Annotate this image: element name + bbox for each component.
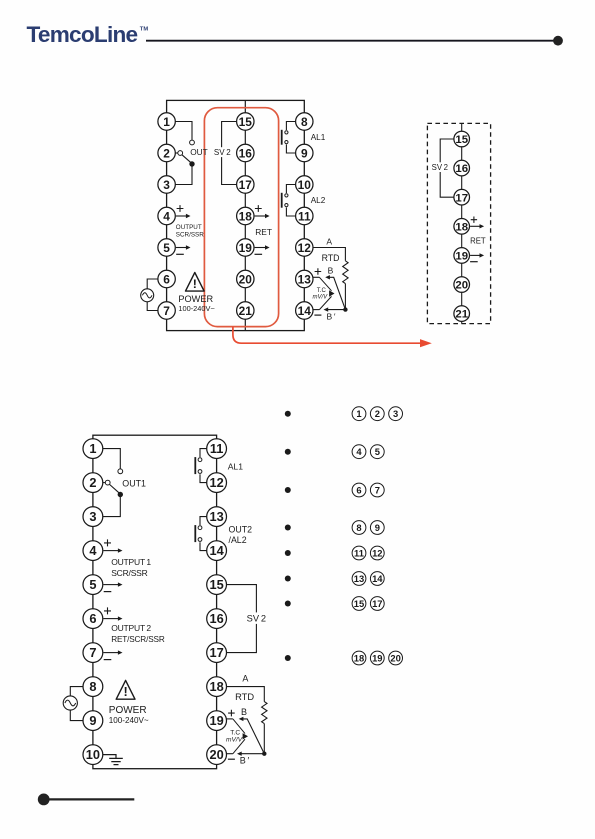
svg-text:18: 18	[455, 221, 468, 233]
SV2 (top middle) label	[214, 148, 231, 157]
bottom sensor input label B	[241, 707, 247, 717]
svg-text:3: 3	[393, 408, 398, 419]
terminal 16	[454, 160, 470, 176]
list terminal badge 12	[370, 546, 384, 560]
svg-text:10: 10	[86, 747, 100, 762]
svg-text:OUT2: OUT2	[229, 524, 253, 534]
top diagram middle column wire	[244, 100, 246, 330]
RET arrow (dashed 19)	[470, 253, 484, 257]
list bullet at terminals 11-12 row	[285, 550, 291, 556]
relay contact OUT1 open contact	[118, 469, 123, 474]
svg-text:17: 17	[372, 598, 382, 609]
svg-text:8: 8	[356, 522, 361, 533]
terminal 1	[158, 113, 175, 130]
svg-text:5: 5	[89, 577, 96, 592]
list terminal badge 13	[352, 572, 366, 586]
RET minus sign (terminal 19)	[255, 253, 263, 255]
svg-text:11: 11	[210, 441, 224, 456]
svg-text:3: 3	[89, 509, 96, 524]
RET arrow (terminal 18)	[255, 214, 270, 218]
terminal 5	[83, 575, 103, 595]
RET arrow (dashed 18)	[470, 224, 484, 228]
terminal 17	[454, 189, 470, 205]
list terminal badge 3	[389, 407, 403, 421]
svg-text:21: 21	[239, 304, 253, 318]
bottom sensor input plus sign	[228, 710, 235, 717]
terminal 18	[454, 219, 470, 235]
svg-text:6: 6	[163, 272, 170, 286]
svg-text:POWER: POWER	[178, 294, 213, 304]
terminal 20	[207, 745, 227, 765]
top sensor input node junction	[343, 307, 347, 311]
svg-text:8: 8	[301, 115, 308, 129]
SV2 (top middle) label backing	[214, 147, 231, 157]
svg-text:16: 16	[239, 146, 253, 160]
svg-text:1: 1	[163, 115, 170, 129]
terminal 17	[237, 176, 254, 193]
svg-text:POWER: POWER	[109, 705, 147, 716]
top sensor input wire B-prime with arrow	[324, 307, 346, 311]
svg-text:14: 14	[209, 543, 224, 558]
bottom sensor input node junction	[262, 752, 266, 756]
relay contact AL1 (bottom) contact bar	[194, 457, 196, 474]
output1 plus sign (terminal 4)	[104, 539, 111, 546]
bottom sensor input wire B with arrow	[239, 717, 265, 754]
label AL1 (bottom)	[228, 462, 244, 472]
svg-text:12: 12	[372, 547, 382, 558]
output1 arrow (terminal 5)	[103, 582, 122, 586]
svg-text:11: 11	[354, 547, 364, 558]
list bullet at terminals 8-9 row	[285, 525, 291, 531]
list terminal badge 18	[352, 651, 366, 665]
svg-text:2: 2	[163, 146, 170, 160]
svg-text:OUTPUT 1: OUTPUT 1	[111, 557, 151, 567]
bottom sensor input label A	[242, 674, 248, 684]
svg-text:100-240V~: 100-240V~	[109, 716, 149, 725]
AC source (top diagram)	[141, 289, 154, 302]
top sensor input wire A to RTD resistor	[313, 248, 345, 261]
header rule	[146, 40, 558, 42]
label POWER (bottom)	[109, 705, 147, 716]
terminal 9	[83, 711, 103, 731]
svg-text:7: 7	[375, 484, 380, 495]
output arrow (terminal 5)	[176, 245, 191, 249]
relay contact OUT2/AL2 contact points	[198, 526, 202, 542]
svg-text:RTD: RTD	[322, 253, 340, 263]
label OUT1	[122, 478, 146, 488]
svg-text:15: 15	[209, 577, 223, 592]
svg-text:18: 18	[209, 679, 223, 694]
terminal 20	[454, 277, 470, 293]
bottom sensor input label B-prime	[240, 755, 250, 765]
footer bullet dot	[38, 794, 50, 806]
svg-text:5: 5	[375, 446, 380, 457]
terminal 7	[158, 302, 175, 319]
header bullet dot	[553, 36, 563, 46]
bottom sensor input wire from - terminal	[227, 753, 233, 755]
svg-text:18: 18	[239, 209, 253, 223]
relay contact AL1 (bottom) wiring	[200, 449, 207, 483]
svg-text:A: A	[242, 674, 248, 684]
svg-text:12: 12	[209, 475, 223, 490]
SV2 (top middle) bracket wire	[222, 122, 237, 185]
output2 arrow (terminal 7)	[103, 650, 122, 654]
svg-text:19: 19	[209, 713, 223, 728]
top sensor input label B-prime	[327, 311, 336, 321]
svg-text:RTD: RTD	[235, 692, 254, 702]
svg-text:4: 4	[356, 446, 362, 457]
output minus sign (terminal 5)	[176, 253, 184, 255]
svg-text:9: 9	[301, 146, 308, 160]
terminal 15	[207, 575, 227, 595]
label POWER (top)	[178, 294, 213, 304]
relay contact AL2 (top) contact points	[285, 194, 288, 207]
top sensor input thermocouple lines	[319, 277, 334, 309]
svg-text:OUTPUT 2: OUTPUT 2	[111, 623, 151, 633]
terminal 19	[207, 711, 227, 731]
output arrow (terminal 4)	[176, 214, 191, 218]
relay contact OUT closed contact dot	[189, 161, 194, 166]
SV2 (dashed box) label backing	[431, 162, 448, 172]
wire AC source to terminal 7	[147, 302, 158, 311]
SV2 (dashed box) label	[432, 163, 448, 172]
svg-text:6: 6	[356, 484, 361, 495]
svg-text:TM: TM	[140, 26, 149, 32]
bottom sensor input minus sign	[228, 758, 235, 760]
svg-text:mV/V: mV/V	[226, 737, 243, 744]
warning triangle (bottom diagram)	[116, 680, 135, 699]
terminal 12	[207, 473, 227, 493]
terminal 19	[237, 239, 254, 256]
terminal 18	[207, 677, 227, 697]
svg-text:8: 8	[89, 679, 96, 694]
svg-text:4: 4	[163, 209, 170, 223]
SV2 (dashed box) bracket wire	[440, 139, 454, 197]
svg-text:1: 1	[356, 408, 361, 419]
top sensor input RTD resistor	[343, 261, 348, 284]
svg-text:OUTPUT: OUTPUT	[176, 224, 202, 231]
list terminal badge 4	[352, 445, 366, 459]
list terminal badge 11	[352, 546, 366, 560]
relay contact AL1 (bottom) contact points	[198, 458, 202, 474]
top sensor input minus sign	[314, 314, 321, 316]
SV2 (bottom) label	[247, 614, 266, 624]
svg-text:mV/V: mV/V	[313, 295, 329, 301]
relay contact OUT2/AL2 wiring	[200, 517, 207, 551]
bottom sensor input wire resistor to junction	[263, 724, 265, 754]
terminal 9	[296, 144, 313, 161]
svg-text:RET/SCR/SSR: RET/SCR/SSR	[111, 635, 165, 644]
svg-text:20: 20	[209, 747, 223, 762]
relay contact OUT1 closed contact dot	[118, 492, 123, 497]
svg-text:SCR/SSR: SCR/SSR	[111, 568, 147, 578]
svg-text:14: 14	[298, 304, 312, 318]
relay contact OUT wire from upper terminal	[175, 122, 192, 140]
terminal 19	[454, 248, 470, 264]
svg-text:10: 10	[298, 178, 312, 192]
terminal 16	[207, 609, 227, 629]
svg-text:B: B	[328, 265, 334, 275]
bottom sensor input wire A to RTD resistor	[227, 687, 265, 702]
svg-text:15: 15	[354, 598, 364, 609]
terminal 21	[237, 302, 254, 319]
terminal 21	[454, 306, 470, 322]
relay contact OUT1 switch arm	[110, 484, 120, 493]
terminal 10	[83, 745, 103, 765]
bottom sensor input label mV/V	[226, 737, 243, 744]
red callout arrowhead	[420, 339, 432, 347]
list terminal badge 1	[352, 407, 366, 421]
svg-text:9: 9	[89, 713, 96, 728]
svg-text:7: 7	[89, 645, 96, 660]
RET plus sign (terminal 18)	[255, 205, 262, 212]
svg-text:19: 19	[372, 652, 382, 663]
svg-text:20: 20	[455, 280, 468, 292]
terminal 17	[207, 643, 227, 663]
svg-text:21: 21	[455, 309, 468, 321]
bottom sensor input wire from + terminal	[227, 718, 233, 720]
svg-text:1: 1	[89, 441, 96, 456]
terminal 10	[296, 176, 313, 193]
svg-text:A: A	[326, 237, 332, 247]
svg-text:14: 14	[372, 573, 383, 584]
label OUT	[190, 147, 208, 157]
terminal 4	[158, 207, 175, 224]
top sensor input label mV/V	[313, 295, 329, 301]
terminal 14	[296, 302, 313, 319]
list terminal badge 6	[352, 483, 366, 497]
terminal 6	[158, 270, 175, 287]
terminal 1	[83, 439, 103, 459]
relay contact AL1 (top) contact bar	[281, 130, 283, 145]
svg-text:15: 15	[239, 115, 253, 129]
terminal 16	[237, 144, 254, 161]
relay contact AL2 (top) contact bar	[281, 193, 283, 208]
svg-text:12: 12	[298, 241, 312, 255]
svg-text:6: 6	[89, 611, 96, 626]
svg-text:20: 20	[390, 652, 400, 663]
svg-text:AL2: AL2	[311, 196, 326, 205]
svg-text:TemcoLine: TemcoLine	[27, 22, 138, 47]
svg-text:T.C: T.C	[317, 288, 327, 294]
relay contact AL1 (top) wiring	[286, 122, 295, 154]
top sensor input label RTD	[322, 253, 340, 263]
label 100-240V (bottom)	[109, 716, 149, 725]
svg-text:19: 19	[455, 251, 468, 263]
terminal 6	[83, 609, 103, 629]
highlight box SV2/RET terminals (red rounded rect)	[204, 108, 278, 327]
list terminal badge 8	[352, 521, 366, 535]
svg-text:B ′: B ′	[240, 755, 250, 765]
terminal 2	[83, 473, 103, 493]
svg-text:AL1: AL1	[311, 133, 326, 142]
svg-text:!: !	[193, 277, 197, 291]
svg-text:B: B	[241, 707, 247, 717]
relay contact OUT switch arm	[182, 155, 191, 163]
svg-text:2: 2	[89, 475, 96, 490]
top sensor input wire from + terminal	[313, 276, 319, 278]
svg-text:RET: RET	[255, 227, 272, 237]
logo TemcoLine	[27, 22, 149, 47]
terminal 8	[83, 677, 103, 697]
top diagram outer frame	[167, 100, 305, 330]
label AL2 (top)	[311, 196, 326, 205]
list terminal badge 14	[370, 572, 384, 586]
svg-text:16: 16	[209, 611, 223, 626]
list bullet at terminals 4-5 row	[285, 449, 291, 455]
relay contact OUT wire to lower terminal	[175, 164, 192, 185]
svg-text:17: 17	[455, 192, 468, 204]
dashed detail box	[427, 123, 490, 323]
svg-text:9: 9	[375, 522, 380, 533]
svg-text:RET: RET	[470, 237, 486, 246]
relay contact OUT open contact	[190, 140, 195, 145]
list terminal badge 9	[370, 521, 384, 535]
label OUTPUT	[176, 224, 202, 231]
label OUTPUT 2	[111, 623, 151, 633]
label RET/SCR/SSR	[111, 635, 165, 644]
output2 arrow (terminal 6)	[103, 616, 122, 620]
svg-text:3: 3	[163, 178, 170, 192]
svg-text:17: 17	[209, 645, 223, 660]
relay contact OUT pole contact	[175, 151, 182, 156]
svg-text:OUT: OUT	[190, 147, 208, 157]
label AL1 (top)	[311, 133, 326, 142]
label OUT2	[229, 524, 253, 534]
terminal 13	[207, 507, 227, 527]
svg-text:B ′: B ′	[327, 311, 336, 321]
svg-text:7: 7	[163, 304, 170, 318]
top sensor input wire from - terminal	[313, 309, 319, 311]
wire AC source to terminal 9	[70, 710, 83, 721]
top sensor input plus sign	[315, 268, 322, 275]
top sensor input label A	[326, 237, 332, 247]
footer rule	[47, 798, 134, 800]
label OUTPUT 1	[111, 557, 151, 567]
svg-text:SV 2: SV 2	[214, 148, 231, 157]
svg-text:SCR/SSR: SCR/SSR	[176, 231, 204, 238]
svg-text:13: 13	[354, 573, 364, 584]
bottom sensor input label RTD	[235, 692, 254, 702]
output1 minus sign (terminal 5)	[104, 591, 112, 593]
RET minus sign (dashed 19)	[470, 261, 478, 263]
terminal 3	[83, 507, 103, 527]
list bullet at terminals 1-2-3 row	[285, 411, 291, 417]
AC source (bottom diagram)	[63, 696, 77, 710]
terminal 14	[207, 541, 227, 561]
svg-text:16: 16	[455, 163, 468, 175]
svg-text:18: 18	[354, 652, 364, 663]
bottom sensor input label T.C	[230, 730, 240, 737]
list terminal badge 5	[370, 445, 384, 459]
svg-text:19: 19	[239, 241, 253, 255]
red callout tail	[233, 327, 421, 344]
terminal 3	[158, 176, 175, 193]
top sensor input label B	[328, 265, 334, 275]
label 100-240V (top)	[178, 304, 214, 313]
svg-text:17: 17	[239, 178, 253, 192]
terminal 12	[296, 239, 313, 256]
svg-text:SV 2: SV 2	[432, 163, 448, 172]
relay contact OUT1 wire from upper terminal	[103, 449, 121, 469]
terminal 13	[296, 270, 313, 287]
terminal 11	[207, 439, 227, 459]
svg-text:20: 20	[239, 272, 253, 286]
SV2 (bottom) label backing	[246, 612, 266, 624]
terminal 15	[237, 113, 254, 130]
svg-text:4: 4	[89, 543, 97, 558]
relay contact AL1 (top) contact points	[285, 131, 288, 144]
svg-text:2: 2	[375, 408, 380, 419]
label RET (dashed box)	[470, 237, 486, 246]
bottom diagram outer frame	[93, 435, 217, 769]
terminal 4	[83, 541, 103, 561]
list terminal badge 17	[370, 597, 384, 611]
output1 arrow (terminal 4)	[103, 548, 122, 552]
terminal 15	[454, 131, 470, 147]
svg-text:13: 13	[298, 272, 312, 286]
svg-text:11: 11	[298, 209, 311, 223]
terminal 20	[237, 270, 254, 287]
svg-text:!: !	[123, 684, 127, 699]
top sensor input wire B with arrow	[325, 275, 345, 310]
list bullet at terminals 18-19-20 row	[285, 655, 291, 661]
list terminal badge 2	[370, 407, 384, 421]
relay contact OUT1 wire to lower terminal	[103, 495, 121, 517]
svg-text:OUT1: OUT1	[122, 478, 146, 488]
terminal 5	[158, 239, 175, 256]
terminal 7	[83, 643, 103, 663]
warning triangle (top diagram)	[186, 273, 205, 292]
bottom sensor input thermocouple lines	[233, 719, 248, 754]
svg-text:/AL2: /AL2	[229, 535, 247, 545]
RET arrow (terminal 19)	[255, 245, 270, 249]
top sensor input wire resistor to junction	[344, 284, 346, 310]
svg-text:AL1: AL1	[228, 462, 244, 472]
label RET (top middle)	[255, 227, 272, 237]
wire terminal 8 to AC source	[70, 687, 83, 696]
svg-text:100-240V~: 100-240V~	[178, 304, 214, 313]
terminal 8	[296, 113, 313, 130]
output2 plus sign (terminal 6)	[104, 607, 111, 614]
label SCR/SSR (bottom)	[111, 568, 147, 578]
list bullet at terminals 13-14 row	[285, 576, 291, 582]
relay contact OUT1 pole contact	[103, 480, 110, 485]
output2 minus sign (terminal 7)	[104, 659, 112, 661]
terminal 18	[237, 207, 254, 224]
svg-text:SV 2: SV 2	[247, 614, 266, 624]
svg-text:15: 15	[455, 134, 468, 146]
label AL2 (bottom)	[229, 535, 247, 545]
output plus sign (terminal 4)	[177, 205, 184, 212]
ground symbol (terminal 10)	[103, 755, 123, 765]
dashed box column wire	[461, 123, 463, 323]
list terminal badge 7	[370, 483, 384, 497]
terminal 11	[296, 207, 313, 224]
relay contact OUT2/AL2 contact bar	[194, 525, 196, 542]
bottom sensor input RTD resistor	[262, 702, 267, 724]
top sensor input label T.C	[317, 288, 327, 294]
list bullet at terminals 6-7 row	[285, 487, 291, 493]
relay contact AL2 (top) wiring	[286, 185, 295, 217]
list terminal badge 20	[389, 651, 403, 665]
svg-text:13: 13	[209, 509, 223, 524]
label SCR/SSR	[176, 231, 204, 238]
terminal 2	[158, 144, 175, 161]
wire terminal 6 to AC source	[147, 279, 158, 289]
RET plus sign (dashed 18)	[471, 217, 477, 223]
list terminal badge 19	[370, 651, 384, 665]
